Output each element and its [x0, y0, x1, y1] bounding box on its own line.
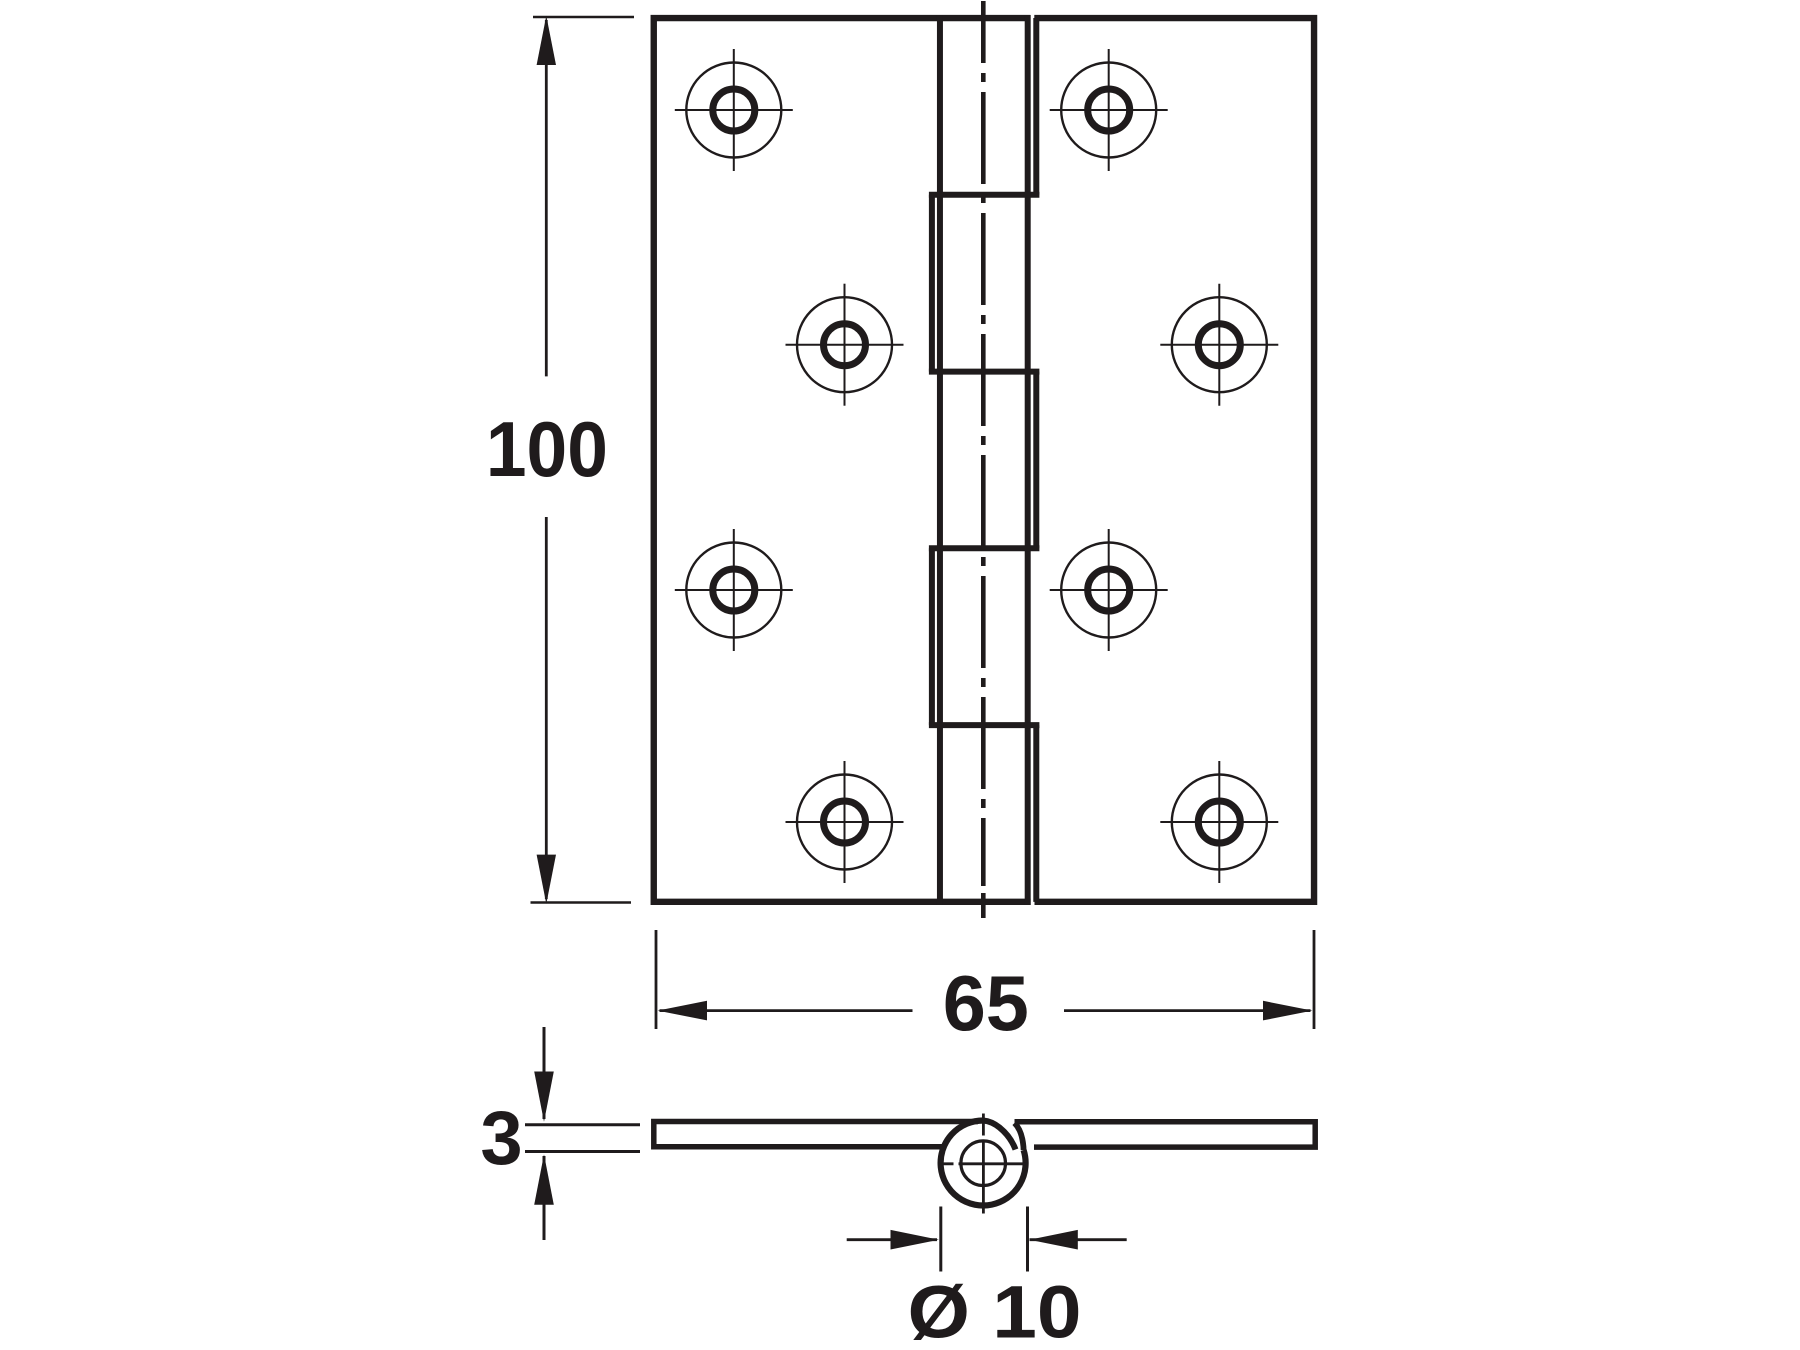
dim 100 extension line top — [533, 16, 634, 19]
screw hole R1 — [1050, 49, 1168, 171]
dim 10 arrow left-pointing — [1029, 1230, 1077, 1250]
dim 100 arrow up — [537, 16, 556, 65]
dim 65 extension line left — [655, 930, 658, 1029]
screw hole R2 — [1160, 284, 1278, 406]
left plate rolled end spiral — [983, 1121, 1015, 1150]
screw hole R4 — [1160, 761, 1278, 883]
dim 65 arrow left — [658, 1001, 707, 1021]
screw hole R3 — [1050, 529, 1168, 651]
dim 65 arrow right — [1263, 1001, 1312, 1021]
dim 100 arrow down — [537, 855, 556, 904]
left leaf free edge behind knuckle segment 2 — [929, 195, 935, 372]
screw hole L1 — [675, 49, 793, 171]
right leaf free edge behind knuckle segment 3 — [1033, 372, 1039, 549]
dim 3 arrow up — [534, 1154, 554, 1204]
pin centerline tail below hinge — [981, 893, 986, 918]
knuckle joint line 1 — [929, 192, 1040, 198]
dim 3 line lower — [543, 1156, 546, 1240]
dim 65 extension line right — [1313, 930, 1316, 1029]
dim 3 arrow down — [534, 1072, 554, 1122]
pin centerline front view — [981, 1, 986, 886]
dim 3 extension line top — [525, 1123, 640, 1126]
knuckle joint line 2 — [929, 369, 1040, 375]
pin bore side view — [961, 1141, 1006, 1186]
pin centerline horizontal side view — [942, 1162, 1026, 1165]
dim 65 line left segment — [660, 1009, 913, 1012]
knuckle barrel side view — [941, 1120, 1026, 1205]
dim 100 extension line bottom — [531, 901, 632, 904]
dim 10 arrow right-pointing — [891, 1230, 939, 1250]
svg-text:100: 100 — [486, 407, 608, 493]
pin centerline vertical side view — [982, 1114, 985, 1214]
right plate rolled end — [1015, 1123, 1024, 1150]
right leaf free edge behind knuckle segment 5 — [1033, 725, 1039, 902]
knuckle right edge — [1025, 15, 1031, 905]
svg-text:65: 65 — [943, 961, 1029, 1047]
dim 10 extension line right — [1026, 1207, 1029, 1272]
knuckle joint line 3 — [929, 545, 1040, 551]
svg-text:3: 3 — [480, 1096, 522, 1181]
right leaf outline — [1034, 18, 1314, 902]
dim 10 line right — [1030, 1238, 1127, 1241]
knuckle joint line 4 — [929, 722, 1040, 728]
dim 100 line upper segment — [545, 20, 548, 376]
dim 10 extension line left — [939, 1207, 942, 1272]
dim 3 line upper — [543, 1027, 546, 1119]
svg-text:Ø 10: Ø 10 — [908, 1271, 1082, 1350]
screw hole L4 — [786, 761, 904, 883]
side view left plate — [654, 1122, 978, 1147]
left leaf outline — [654, 18, 1031, 902]
right leaf free edge behind knuckle segment 1 — [1033, 18, 1039, 195]
screw hole L2 — [786, 284, 904, 406]
left leaf free edge behind knuckle segment 4 — [929, 548, 935, 725]
knuckle left edge — [937, 15, 943, 905]
dim 65 line right segment — [1064, 1009, 1311, 1012]
dim 3 extension line bottom — [525, 1150, 640, 1153]
side view right plate — [1015, 1122, 1316, 1147]
dim 10 line left — [847, 1238, 937, 1241]
dim 100 line lower segment — [545, 517, 548, 899]
screw hole L3 — [675, 529, 793, 651]
